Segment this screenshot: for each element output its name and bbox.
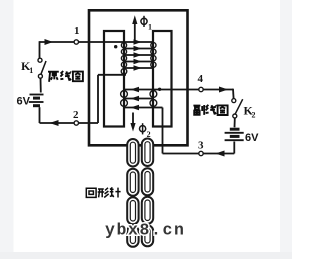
svg-text:1: 1 <box>29 66 33 75</box>
right margin strip <box>280 0 292 259</box>
flux arrow phi1 (up) <box>132 15 137 40</box>
svg-text:6V: 6V <box>17 96 31 108</box>
primary coil turns (rows with right arrows) <box>124 39 153 70</box>
switch K1 lower contact <box>38 74 42 78</box>
current arrow right (top-left wire) <box>45 39 54 45</box>
wire battery2 down corner <box>233 142 235 154</box>
current arrow left (wire 3) <box>216 151 225 157</box>
secondary coil loop circles right edge <box>150 91 157 107</box>
left margin strip <box>0 0 14 259</box>
current arrow left (bottom-left wire) <box>50 120 59 126</box>
wire bottom-right to terminal3 <box>203 153 234 155</box>
svg-text:2: 2 <box>73 109 79 121</box>
wire up through core bottom <box>162 108 164 154</box>
core right window <box>153 31 172 127</box>
flux arrow phi2 (down) <box>130 113 135 132</box>
polarity dot primary <box>114 45 117 48</box>
label paperclips 回形针 <box>86 187 120 197</box>
wire K2 to battery2 <box>234 118 236 127</box>
label primary coil text 原线圈 <box>48 71 83 82</box>
svg-text:4: 4 <box>198 73 204 85</box>
svg-text:3: 3 <box>198 140 204 152</box>
paperclip chain left column <box>127 139 138 247</box>
label phi2 <box>140 123 151 139</box>
svg-text:6V: 6V <box>245 132 259 144</box>
wire terminal3 left <box>163 153 199 155</box>
core left window <box>104 31 124 127</box>
wire riser to coil bottom <box>98 74 126 76</box>
wire left vertical upper <box>39 41 41 58</box>
current arrow right (wire 4) <box>219 87 228 93</box>
label secondary coil text 副线圈 <box>193 105 227 115</box>
wire terminal2 into core <box>79 122 99 124</box>
secondary coil turns (rows with left arrows) <box>124 87 153 111</box>
switch K2 blade <box>235 99 242 114</box>
wire to secondary coil bottom <box>153 107 163 109</box>
transformer core outer outline <box>89 10 188 145</box>
wire terminal1 to coil <box>79 41 125 43</box>
battery B2 6V <box>225 129 244 140</box>
wire left top segment <box>40 41 75 43</box>
switch K1 upper contact <box>38 58 42 62</box>
wire battery down to corner <box>39 107 41 123</box>
primary coil loop circles right edge <box>151 43 156 68</box>
secondary coil loop circles left edge <box>121 91 128 107</box>
wire switch to battery <box>40 78 42 92</box>
svg-text:1: 1 <box>148 23 152 32</box>
polarity dot secondary <box>158 88 161 91</box>
node 4 terminal circle <box>199 87 203 91</box>
wire corner down to K2 <box>232 89 235 99</box>
wire riser inside core <box>97 75 99 123</box>
switch K1 blade <box>41 61 46 74</box>
svg-text:ybx8.cn: ybx8.cn <box>105 221 186 240</box>
paperclip chain right column <box>142 139 153 247</box>
wire coil to terminal4 <box>153 89 199 91</box>
battery B1 6V <box>29 95 44 106</box>
svg-text:1: 1 <box>74 25 80 37</box>
primary coil loop circles left edge <box>121 43 127 75</box>
label phi1 <box>141 16 152 32</box>
node 2 terminal circle <box>74 121 78 125</box>
svg-text:2: 2 <box>252 111 256 120</box>
node 3 terminal circle <box>199 151 203 155</box>
wire terminal4 right <box>203 89 233 91</box>
node 1 terminal circle <box>74 40 78 44</box>
wire bottom-left segment <box>40 122 75 124</box>
switch K2 upper contact <box>232 99 236 103</box>
switch K2 lower contact <box>233 114 237 118</box>
bottom margin strip <box>0 252 292 259</box>
